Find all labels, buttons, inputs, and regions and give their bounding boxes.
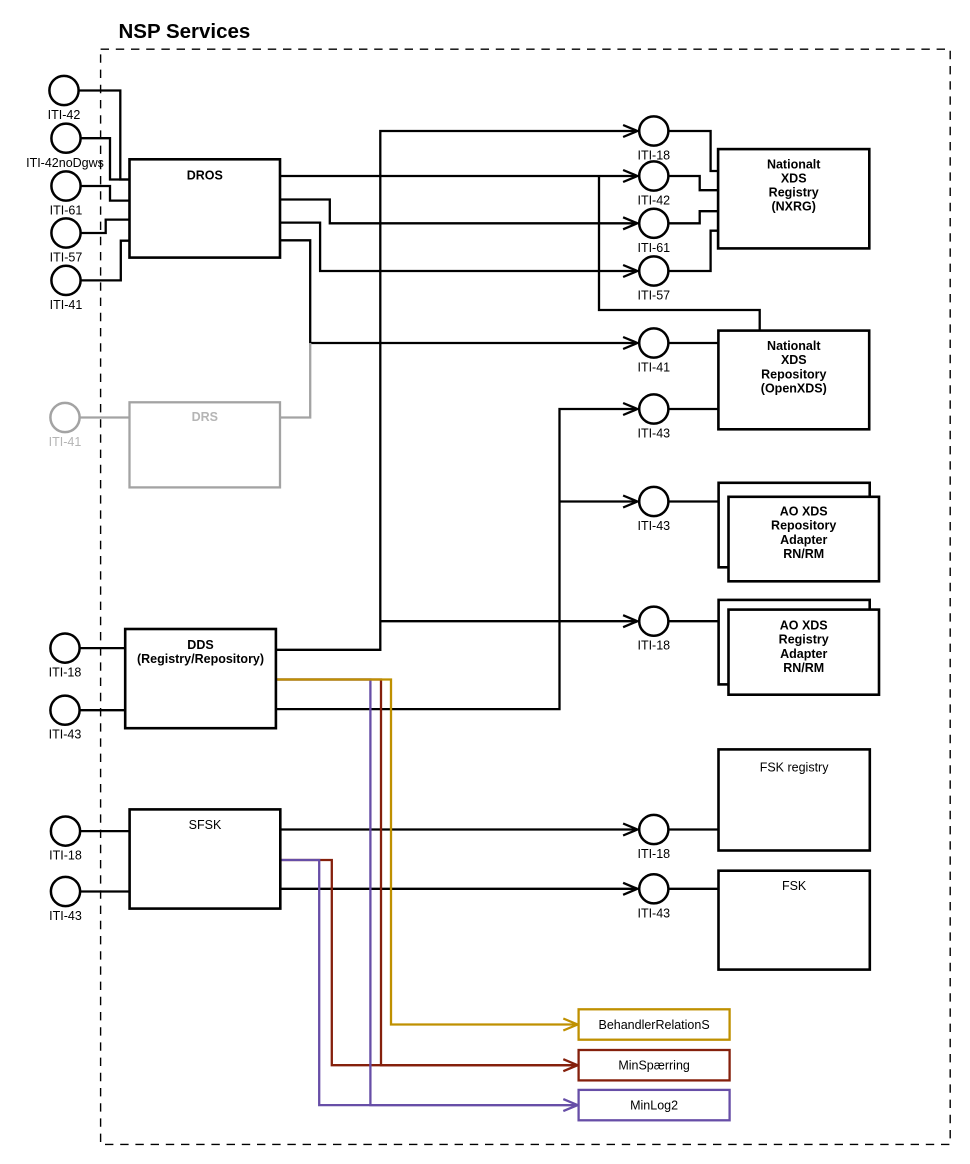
port circle ITI-42noDgws (left) xyxy=(26,124,104,170)
svg-text:ITI-18: ITI-18 xyxy=(637,847,670,861)
wire DDS orange to BehandlerRelationS xyxy=(276,680,577,1025)
svg-text:Adapter: Adapter xyxy=(780,647,827,661)
svg-text:ITI-43: ITI-43 xyxy=(637,906,670,920)
svg-text:AO XDS: AO XDS xyxy=(780,505,828,519)
svg-text:ITI-43: ITI-43 xyxy=(637,519,670,533)
port circle ITI-61 (NXRG) xyxy=(637,209,670,255)
wire SFSK ITI-43 to SFSK xyxy=(81,890,130,892)
port circle ITI-41 (OpenXDS) xyxy=(637,328,670,374)
svg-text:ITI-42: ITI-42 xyxy=(637,194,670,208)
box MinLog2 (purple) xyxy=(579,1090,730,1120)
arrow red into MinSpaerring xyxy=(563,1059,577,1071)
port circle ITI-42 (left) xyxy=(48,76,81,122)
box DRS (gray) xyxy=(130,402,281,487)
svg-text:ITI-42: ITI-42 xyxy=(48,108,81,122)
arrow into OpenXDS ITI-43 xyxy=(623,403,637,415)
wire DROS to NXRG ITI-61 circle xyxy=(280,200,637,224)
svg-text:MinSpærring: MinSpærring xyxy=(618,1059,690,1073)
wire ITI-57 to DROS xyxy=(81,220,130,233)
wire branch to AO Repository ITI-43 circle xyxy=(560,500,637,502)
svg-text:FSK: FSK xyxy=(782,879,807,893)
wire OpenXDS ITI-43 circle to OpenXDS box xyxy=(669,408,718,410)
svg-text:ITI-18: ITI-18 xyxy=(637,638,670,652)
port circle ITI-57 (NXRG) xyxy=(637,256,670,302)
port circle ITI-18 (NXRG) xyxy=(637,116,670,162)
svg-text:Registry: Registry xyxy=(779,633,829,647)
box Nationalt XDS Repository (OpenXDS) xyxy=(718,331,869,430)
wire ITI-42noDgws to DROS xyxy=(81,138,130,179)
svg-text:Adapter: Adapter xyxy=(780,533,827,547)
port circle ITI-43 (OpenXDS) xyxy=(637,394,670,440)
svg-text:FSK registry: FSK registry xyxy=(760,761,830,775)
port circle ITI-18 (SFSK) xyxy=(49,817,82,863)
arrow into FSK registry ITI-18 xyxy=(623,824,637,836)
svg-text:DDS: DDS xyxy=(187,638,213,652)
wire SFSK to FSK registry ITI-18 circle xyxy=(280,828,636,830)
box FSK xyxy=(719,871,870,970)
port circle ITI-18 (AO Registry) xyxy=(637,607,670,653)
arrow into NXRG ITI-57 xyxy=(623,265,637,277)
wire SFSK to FSK ITI-43 circle xyxy=(280,888,636,890)
box BehandlerRelationS (gold) xyxy=(579,1009,730,1039)
box FSK registry xyxy=(719,749,870,850)
box Nationalt XDS Registry (NXRG) xyxy=(718,149,869,248)
box AO XDS Registry Adapter RN/RM (stacked) xyxy=(719,600,879,695)
svg-text:BehandlerRelationS: BehandlerRelationS xyxy=(598,1018,709,1032)
svg-text:ITI-61: ITI-61 xyxy=(637,241,670,255)
svg-text:XDS: XDS xyxy=(781,172,807,186)
arrow into NXRG ITI-61 xyxy=(623,217,637,229)
port circle ITI-41 (left) xyxy=(50,266,83,312)
svg-text:ITI-43: ITI-43 xyxy=(49,909,82,923)
wire DDS red to MinSpaerring xyxy=(276,680,577,1066)
svg-text:SFSK: SFSK xyxy=(189,818,222,832)
svg-text:ITI-18: ITI-18 xyxy=(49,666,82,680)
wire DDS ITI-18 to DDS xyxy=(81,647,126,649)
wire SFSK purple to MinLog2 xyxy=(280,860,577,1105)
arrow into FSK ITI-43 xyxy=(623,883,637,895)
svg-text:(Registry/Repository): (Registry/Repository) xyxy=(137,652,264,666)
port circle ITI-57 (left) xyxy=(50,218,83,264)
svg-text:ITI-41: ITI-41 xyxy=(50,298,83,312)
wire DROS to NXRG ITI-42 circle with branch to OpenXDS top xyxy=(280,175,637,177)
svg-text:ITI-43: ITI-43 xyxy=(49,728,82,742)
svg-text:XDS: XDS xyxy=(781,353,807,367)
wire DRS gray to ITI-41 path xyxy=(81,343,311,418)
svg-text:ITI-41: ITI-41 xyxy=(49,435,82,449)
port circle ITI-18 (DDS) xyxy=(49,634,82,680)
wire DDS up to NXRG ITI-18 circle xyxy=(276,131,637,650)
wire DROS to OpenXDS ITI-41 circle xyxy=(280,240,637,343)
svg-text:ITI-57: ITI-57 xyxy=(637,289,670,303)
wire ITI-41 to DROS xyxy=(81,241,130,281)
svg-text:(OpenXDS): (OpenXDS) xyxy=(761,381,827,395)
svg-text:ITI-43: ITI-43 xyxy=(637,427,670,441)
svg-text:ITI-41: ITI-41 xyxy=(637,361,670,375)
arrow into AO Registry ITI-18 xyxy=(623,615,637,627)
wire DDS ITI-43 to DDS xyxy=(81,709,126,711)
arrow into NXRG ITI-42 xyxy=(623,170,637,182)
wire SFSK ITI-18 to SFSK xyxy=(81,830,130,832)
box DDS (Registry/Repository) xyxy=(125,629,276,728)
port circle ITI-43 (DDS) xyxy=(49,696,82,742)
wire NXRG ITI-61 circle to NXRG box xyxy=(669,211,718,223)
box SFSK xyxy=(130,809,281,908)
port circle ITI-42 (NXRG) xyxy=(637,161,670,207)
arrow into AO Repository ITI-43 xyxy=(623,496,637,508)
wire AO Registry ITI-18 circle to AO box xyxy=(669,620,718,622)
wire DROS to NXRG ITI-57 circle xyxy=(280,223,637,271)
wire SFSK red to MinSpaerring xyxy=(280,860,577,1065)
svg-text:ITI-57: ITI-57 xyxy=(50,251,83,265)
wire DDS purple to MinLog2 xyxy=(276,680,577,1106)
arrow orange into BehandlerRelationS xyxy=(563,1019,577,1031)
svg-text:Nationalt: Nationalt xyxy=(767,339,821,353)
port circle ITI-43 (SFSK) xyxy=(49,877,82,923)
svg-text:ITI-18: ITI-18 xyxy=(49,849,82,863)
wire ITI-61 to DROS xyxy=(81,186,130,201)
wire NXRG ITI-42 circle to NXRG box xyxy=(669,176,718,190)
wire DDS to OpenXDS ITI-43 circle xyxy=(276,409,637,709)
wire OpenXDS ITI-41 circle to OpenXDS box xyxy=(669,342,718,344)
wire ITI-42 to DROS xyxy=(80,91,130,180)
arrow into NXRG ITI-18 xyxy=(623,125,637,137)
wire FSK registry ITI-18 circle to FSK registry box xyxy=(669,828,719,830)
svg-text:NSP Services: NSP Services xyxy=(119,20,251,43)
svg-text:Repository: Repository xyxy=(761,367,826,381)
box MinSpaerring (dark red) xyxy=(579,1050,730,1080)
wire NXRG ITI-57 circle to NXRG box xyxy=(669,231,718,271)
port circle ITI-61 (left) xyxy=(50,171,83,217)
wire NXRG ITI-18 circle to NXRG box xyxy=(669,131,718,171)
svg-text:ITI-61: ITI-61 xyxy=(50,204,83,218)
port circle ITI-43 (AO Repository) xyxy=(637,487,670,533)
svg-text:Repository: Repository xyxy=(771,519,836,533)
box DROS xyxy=(130,159,281,257)
svg-text:(NXRG): (NXRG) xyxy=(771,200,815,214)
svg-text:MinLog2: MinLog2 xyxy=(630,1099,678,1113)
arrow purple into MinLog2 xyxy=(563,1099,577,1111)
port circle ITI-41 gray (DRS) xyxy=(49,403,82,449)
svg-text:Nationalt: Nationalt xyxy=(767,157,821,171)
svg-text:ITI-42noDgws: ITI-42noDgws xyxy=(26,156,104,170)
svg-text:RN/RM: RN/RM xyxy=(783,547,824,561)
svg-text:AO XDS: AO XDS xyxy=(780,619,828,633)
svg-text:RN/RM: RN/RM xyxy=(783,661,824,675)
box AO XDS Repository Adapter RN/RM (stacked) xyxy=(719,483,879,582)
port circle ITI-18 (FSK registry) xyxy=(637,815,670,861)
wire branch to AO Registry ITI-18 circle xyxy=(380,620,636,622)
svg-text:DRS: DRS xyxy=(192,410,218,424)
wire FSK ITI-43 circle to FSK box xyxy=(669,888,719,890)
port circle ITI-43 (FSK) xyxy=(637,874,670,920)
svg-text:DROS: DROS xyxy=(187,169,223,183)
svg-text:Registry: Registry xyxy=(769,186,819,200)
arrow into OpenXDS ITI-41 xyxy=(623,337,637,349)
wire AO Repository ITI-43 circle to AO box xyxy=(669,500,718,502)
